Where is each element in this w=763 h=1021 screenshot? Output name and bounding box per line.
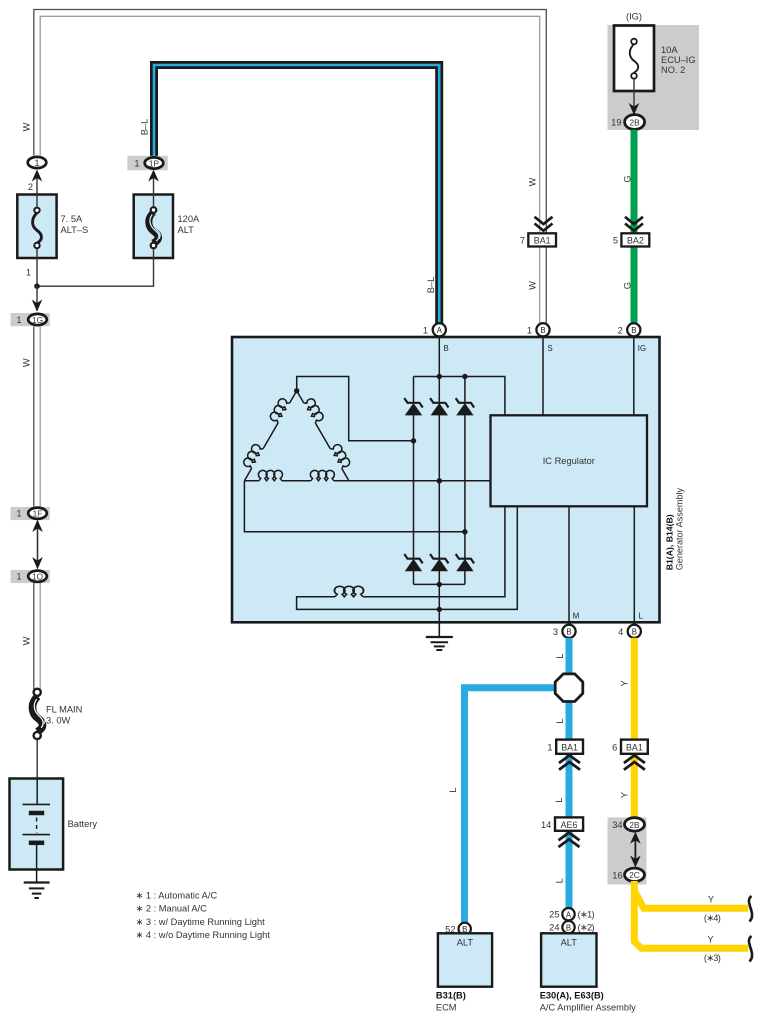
svg-text:2B: 2B bbox=[629, 820, 640, 830]
diode D4 bbox=[404, 554, 422, 571]
wire W battery sense: oval1 to S pin, inner line bbox=[40, 16, 540, 323]
svg-text:W: W bbox=[22, 122, 32, 131]
svg-text:1G: 1G bbox=[32, 315, 43, 325]
svg-text:B: B bbox=[632, 628, 637, 637]
pin circle B (M terminal) bbox=[562, 625, 575, 638]
svg-text:1: 1 bbox=[17, 315, 22, 325]
wire: left diode column bbox=[413, 377, 415, 403]
wire: fuse 120A down and left to junction bbox=[37, 258, 154, 286]
node bottom rail bbox=[437, 582, 442, 587]
wire: rectifier top rail bbox=[414, 377, 505, 416]
svg-text:ALT: ALT bbox=[178, 225, 195, 235]
svg-text:1: 1 bbox=[35, 158, 40, 168]
svg-text:2B: 2B bbox=[630, 118, 641, 128]
svg-text:14: 14 bbox=[541, 820, 551, 830]
pin circle B (S terminal) bbox=[536, 323, 549, 336]
svg-text:L: L bbox=[554, 797, 564, 802]
connector 2B (top) bbox=[625, 115, 645, 130]
svg-text:BA1: BA1 bbox=[561, 743, 578, 753]
svg-text:B: B bbox=[540, 326, 545, 335]
rotor field winding bbox=[363, 506, 505, 596]
svg-text:1: 1 bbox=[423, 325, 428, 335]
svg-text:(∗4): (∗4) bbox=[704, 913, 721, 923]
svg-text:W: W bbox=[528, 177, 538, 186]
wire: oval1 to fuse ALT-S with arrow up bbox=[36, 171, 38, 195]
svg-text:ALT–S: ALT–S bbox=[61, 225, 89, 235]
svg-text:B: B bbox=[444, 344, 449, 353]
svg-text:B1(A), B14(B): B1(A), B14(B) bbox=[665, 514, 675, 570]
svg-text:L: L bbox=[555, 654, 565, 659]
continuation squiggle (*4) bbox=[749, 896, 752, 922]
svg-text:∗ 1 : Automatic A/C: ∗ 1 : Automatic A/C bbox=[136, 891, 218, 901]
svg-text:7: 7 bbox=[520, 236, 525, 246]
wire: IG pin to IC bbox=[633, 337, 635, 416]
svg-text:3: 3 bbox=[553, 627, 558, 637]
svg-text:1: 1 bbox=[26, 268, 31, 278]
IC Regulator U1 bbox=[491, 415, 648, 506]
svg-text:L: L bbox=[448, 787, 458, 792]
pin circle A (A/C 25) bbox=[562, 908, 574, 920]
fuse 10A ECU-IG NO.2 bbox=[614, 26, 654, 92]
connector 1F (gray tag) bbox=[11, 507, 50, 520]
svg-text:S: S bbox=[548, 344, 553, 353]
svg-text:B–L: B–L bbox=[140, 119, 150, 136]
svg-text:BA1: BA1 bbox=[534, 235, 551, 245]
svg-text:Y: Y bbox=[620, 792, 630, 798]
svg-text:4: 4 bbox=[618, 627, 623, 637]
svg-text:M: M bbox=[573, 612, 580, 621]
svg-text:25: 25 bbox=[549, 910, 559, 920]
svg-text:Y: Y bbox=[708, 895, 714, 905]
svg-text:B–L: B–L bbox=[426, 277, 436, 294]
chevron below BA1 (yellow) bbox=[624, 755, 645, 769]
svg-text:Y: Y bbox=[620, 680, 630, 686]
wire: B column through rectifier to ground bbox=[438, 337, 440, 403]
connector oval 1 (top left) bbox=[28, 157, 47, 168]
arrows between 2B and 2C bbox=[634, 837, 636, 862]
svg-text:120A: 120A bbox=[178, 214, 201, 224]
connector BA1 (yellow) bbox=[621, 740, 648, 754]
wire Y: branch to *4 bbox=[634, 891, 748, 909]
svg-text:Generator Assembly: Generator Assembly bbox=[675, 487, 685, 570]
svg-text:L: L bbox=[555, 878, 565, 883]
continuation squiggle (*3) bbox=[749, 936, 752, 962]
svg-text:Battery: Battery bbox=[68, 819, 98, 829]
svg-text:B: B bbox=[631, 326, 636, 335]
svg-text:1F: 1F bbox=[33, 509, 43, 519]
chevron below BA1 (blue) bbox=[559, 755, 580, 769]
junction node bbox=[34, 283, 40, 289]
svg-text:W: W bbox=[528, 281, 538, 290]
node phase1 junction bbox=[411, 438, 416, 443]
svg-text:G: G bbox=[623, 282, 633, 289]
svg-text:5: 5 bbox=[613, 236, 618, 246]
svg-text:W: W bbox=[22, 636, 32, 645]
wire L: M pin to octagon junction bbox=[566, 638, 573, 676]
svg-text:7. 5A: 7. 5A bbox=[61, 214, 84, 224]
wire W: 1Q to FL MAIN double line bbox=[33, 583, 35, 689]
svg-text:19: 19 bbox=[611, 118, 621, 128]
svg-text:1: 1 bbox=[547, 743, 552, 753]
svg-text:ALT: ALT bbox=[561, 938, 578, 948]
junction block gray box (IG fuse) bbox=[608, 25, 700, 130]
fuse 7.5A ALT-S bbox=[17, 195, 56, 259]
svg-text:IG: IG bbox=[638, 344, 646, 353]
wire: phase2 line from right vertex to IC regulator bbox=[349, 480, 491, 482]
pin circle A (B terminal) bbox=[433, 323, 446, 336]
connector BA1 (top) bbox=[528, 233, 556, 246]
svg-text:ALT: ALT bbox=[457, 938, 474, 948]
svg-text:2: 2 bbox=[28, 182, 33, 192]
svg-text:1: 1 bbox=[17, 572, 22, 582]
connector AE6 bbox=[555, 817, 583, 830]
wire: IC to M pin bbox=[568, 506, 570, 625]
svg-text:ECU–IG: ECU–IG bbox=[661, 55, 696, 65]
ground (generator) bbox=[438, 623, 440, 637]
svg-text:FL MAIN: FL MAIN bbox=[46, 705, 82, 715]
pin circle B (L terminal) bbox=[628, 625, 641, 638]
svg-text:6: 6 bbox=[612, 743, 617, 753]
node phase3 junction bbox=[462, 529, 467, 534]
node phase2 on B column bbox=[437, 478, 442, 483]
svg-text:2C: 2C bbox=[629, 870, 640, 880]
diode D6 bbox=[456, 554, 474, 571]
svg-text:IC Regulator: IC Regulator bbox=[543, 456, 595, 466]
svg-text:BA1: BA1 bbox=[626, 743, 643, 753]
svg-text:3. 0W: 3. 0W bbox=[46, 716, 71, 726]
wire: fuse 120A up to 1P with arrow bbox=[153, 171, 155, 195]
svg-text:(∗2): (∗2) bbox=[578, 923, 595, 933]
svg-text:∗ 2 : Manual A/C: ∗ 2 : Manual A/C bbox=[136, 904, 208, 914]
junction block gray (2B/2C) bbox=[608, 817, 647, 884]
svg-text:1: 1 bbox=[527, 325, 532, 335]
svg-text:∗ 3 : w/ Daytime Running Light: ∗ 3 : w/ Daytime Running Light bbox=[136, 917, 266, 927]
svg-text:W: W bbox=[22, 358, 32, 367]
node rail-B bbox=[437, 374, 442, 379]
diode D1 bbox=[404, 398, 422, 415]
svg-text:1: 1 bbox=[17, 509, 22, 519]
diode D3 bbox=[456, 398, 474, 415]
wire W battery sense: oval1 to S pin, outer line bbox=[34, 10, 547, 324]
svg-text:(∗1): (∗1) bbox=[578, 910, 595, 920]
battery bbox=[10, 779, 64, 870]
chevron below AE6 bbox=[559, 833, 580, 847]
svg-text:(IG): (IG) bbox=[626, 12, 642, 22]
svg-text:Y: Y bbox=[707, 935, 713, 945]
wire L: octagon branch to ECM bbox=[465, 688, 559, 923]
junction octagon bbox=[555, 674, 583, 702]
ECM box bbox=[438, 933, 492, 986]
wire: phase3 from left vertex to right diode column bbox=[244, 481, 465, 532]
node rail-right bbox=[462, 374, 467, 379]
svg-text:G: G bbox=[623, 175, 633, 182]
diode D2 bbox=[430, 398, 448, 415]
svg-text:L: L bbox=[555, 718, 565, 723]
svg-text:∗ 4 : w/o Daytime Running Ligh: ∗ 4 : w/o Daytime Running Light bbox=[136, 930, 271, 940]
svg-text:AE6: AE6 bbox=[561, 820, 578, 830]
svg-text:B: B bbox=[566, 628, 571, 637]
pin circle B (A/C 24) bbox=[562, 921, 574, 933]
A/C amplifier box bbox=[541, 933, 596, 986]
wire B-L: blue core bbox=[154, 65, 439, 323]
svg-text:A: A bbox=[566, 910, 572, 919]
svg-text:10A: 10A bbox=[661, 45, 678, 55]
node top vertex bbox=[294, 388, 299, 393]
wire: right diode column bbox=[464, 377, 466, 403]
wire B-L: fuse 120A to B pin, black outer bbox=[154, 65, 439, 323]
svg-text:1P: 1P bbox=[149, 159, 160, 169]
node field return bbox=[437, 607, 442, 612]
wire: junction to 1G with arrow down bbox=[36, 286, 38, 311]
svg-text:BA2: BA2 bbox=[627, 235, 644, 245]
fuse 120A ALT bbox=[134, 195, 173, 259]
wire G: 2B to IG pin bbox=[631, 130, 638, 323]
wire: fuse to 2B with arrow down bbox=[633, 79, 635, 112]
wire W: 1G to 1F double line bbox=[33, 327, 35, 507]
svg-text:16: 16 bbox=[612, 870, 622, 880]
svg-text:24: 24 bbox=[549, 923, 559, 933]
svg-text:ECM: ECM bbox=[436, 1003, 457, 1013]
wire: S pin to IC bbox=[542, 337, 544, 416]
diode D5 bbox=[430, 554, 448, 571]
svg-text:A: A bbox=[437, 326, 443, 335]
wire: fuse ALT-S down to junction bbox=[36, 258, 38, 286]
svg-text:2: 2 bbox=[618, 325, 623, 335]
svg-text:B31(B): B31(B) bbox=[436, 990, 466, 1000]
pin circle B (IG terminal) bbox=[627, 323, 640, 336]
fusible link FL MAIN 3.0W bbox=[32, 696, 42, 731]
chevron in-connector (green) bbox=[625, 217, 643, 231]
connector BA1 (blue) bbox=[556, 740, 583, 754]
svg-text:(∗3): (∗3) bbox=[704, 953, 721, 963]
connector 2C bbox=[625, 868, 645, 881]
wire Y: 2C down and branch to *3 bbox=[634, 881, 748, 948]
connector 1P (gray tag) bbox=[127, 156, 167, 171]
connector 1G (gray tag) bbox=[11, 313, 50, 326]
wire: rectifier bottom rail bbox=[414, 583, 465, 585]
svg-text:NO. 2: NO. 2 bbox=[661, 65, 685, 75]
ground (battery) bbox=[24, 881, 50, 883]
svg-text:L: L bbox=[639, 612, 644, 621]
svg-text:34: 34 bbox=[612, 820, 622, 830]
wire Y: L pin down to 2B bbox=[631, 638, 638, 819]
svg-text:B: B bbox=[566, 923, 571, 932]
generator assembly box B1(A), B14(B) bbox=[232, 337, 660, 622]
svg-text:1Q: 1Q bbox=[32, 572, 44, 582]
wire: 1F to 1Q with arrows both ends bbox=[37, 524, 39, 564]
svg-text:1: 1 bbox=[135, 159, 140, 169]
connector 1Q (gray tag) bbox=[11, 570, 50, 583]
connector 2B (lower) bbox=[625, 818, 645, 831]
connector BA2 bbox=[621, 233, 649, 246]
pin circle B (ECM 52) bbox=[459, 923, 471, 935]
svg-text:E30(A), E63(B): E30(A), E63(B) bbox=[540, 990, 604, 1000]
svg-text:A/C Amplifier Assembly: A/C Amplifier Assembly bbox=[540, 1003, 636, 1013]
chevron in-connector (white wire) bbox=[535, 217, 553, 231]
wire: FL MAIN to battery bbox=[36, 739, 38, 778]
wire: top vertex Z-path to left diode column bbox=[297, 377, 414, 441]
wire: IC to L pin bbox=[633, 506, 635, 625]
wire L: octagon down to A/C amp circle A bbox=[566, 699, 573, 908]
